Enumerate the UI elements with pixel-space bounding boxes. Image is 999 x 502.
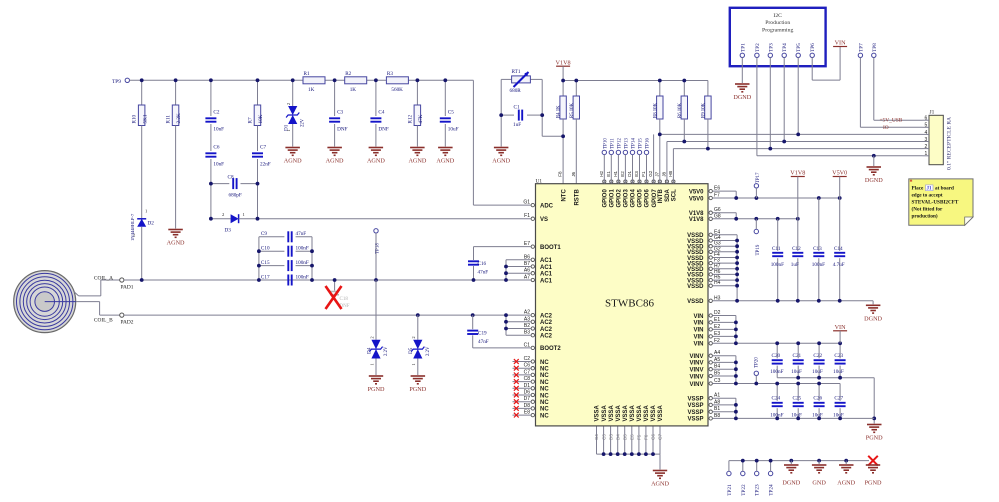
svg-text:TP9: TP9	[112, 79, 121, 85]
svg-text:AC1: AC1	[540, 258, 553, 264]
svg-text:V1V8: V1V8	[790, 170, 805, 177]
svg-text:10nF: 10nF	[213, 127, 224, 133]
svg-text:VINV: VINV	[689, 374, 703, 380]
svg-text:R5 10K: R5 10K	[570, 102, 575, 118]
svg-text:GPIO7: GPIO7	[652, 189, 658, 208]
svg-text:680pF: 680pF	[229, 193, 242, 199]
svg-text:VSSA: VSSA	[602, 404, 608, 421]
svg-text:VSSA: VSSA	[630, 404, 636, 421]
svg-text:F1: F1	[641, 171, 646, 177]
svg-text:SCL: SCL	[672, 189, 678, 201]
svg-text:2: 2	[369, 336, 374, 338]
svg-text:22nF: 22nF	[260, 162, 271, 168]
svg-text:AGND: AGND	[284, 158, 302, 165]
svg-text:GPIO0: GPIO0	[603, 189, 609, 208]
svg-text:R4 1K: R4 1K	[557, 105, 562, 118]
svg-text:VSSA: VSSA	[637, 404, 643, 421]
svg-text:C9: C9	[261, 231, 267, 237]
svg-text:PGND: PGND	[866, 435, 883, 442]
svg-text:AGND: AGND	[408, 158, 426, 165]
svg-text:TP20: TP20	[755, 357, 760, 368]
svg-text:edge to accept: edge to accept	[912, 193, 943, 199]
svg-text:NC: NC	[540, 367, 549, 373]
svg-text:GPIO3: GPIO3	[624, 189, 630, 208]
svg-text:TP4: TP4	[782, 43, 788, 52]
svg-text:STWBC86: STWBC86	[605, 298, 654, 310]
svg-text:DNF: DNF	[337, 127, 347, 133]
svg-text:TP23: TP23	[755, 484, 761, 496]
svg-text:VSSA: VSSA	[623, 404, 629, 421]
svg-text:C19: C19	[478, 330, 487, 336]
svg-text:TP22: TP22	[741, 484, 747, 496]
svg-text:TP19: TP19	[756, 244, 761, 255]
svg-text:1: 1	[925, 151, 928, 157]
svg-text:VSSA: VSSA	[658, 404, 664, 421]
svg-text:AGND: AGND	[367, 158, 385, 165]
svg-text:C14: C14	[834, 246, 843, 252]
svg-text:100nF: 100nF	[296, 260, 309, 266]
svg-text:R3: R3	[387, 71, 393, 77]
svg-text:+5V_USB: +5V_USB	[880, 118, 903, 124]
svg-text:J1: J1	[927, 187, 933, 192]
svg-text:C26: C26	[813, 396, 822, 402]
svg-text:47nF: 47nF	[478, 270, 489, 276]
svg-text:VIN: VIN	[835, 40, 847, 47]
svg-text:TP8: TP8	[872, 43, 878, 52]
svg-text:VSSA: VSSA	[595, 404, 601, 421]
svg-text:5K1: 5K1	[142, 114, 148, 123]
svg-text:BOOT1: BOOT1	[540, 245, 561, 251]
svg-text:(Not fitted for: (Not fitted for	[912, 206, 944, 213]
svg-text:10nF: 10nF	[213, 162, 224, 168]
svg-text:1K: 1K	[308, 87, 315, 93]
svg-text:100nF: 100nF	[296, 246, 309, 252]
svg-text:DGND: DGND	[865, 177, 883, 184]
svg-text:G1: G1	[523, 200, 530, 206]
svg-text:560K: 560K	[391, 87, 403, 93]
svg-text:GPIO5: GPIO5	[638, 189, 644, 208]
svg-text:VINV: VINV	[689, 368, 703, 374]
svg-text:R11: R11	[166, 115, 172, 124]
svg-text:I2C: I2C	[773, 13, 782, 19]
svg-text:Production: Production	[765, 20, 790, 26]
svg-text:E2: E2	[620, 171, 625, 177]
svg-text:3: 3	[925, 137, 928, 143]
svg-text:1uF: 1uF	[513, 122, 521, 128]
svg-text:R8 10K: R8 10K	[653, 102, 658, 118]
svg-text:R12: R12	[407, 114, 413, 123]
svg-text:NC: NC	[540, 413, 549, 419]
svg-text:TP1: TP1	[740, 43, 746, 52]
svg-text:100nF: 100nF	[771, 262, 784, 268]
svg-text:D5: D5	[408, 347, 414, 354]
svg-text:NC: NC	[540, 407, 549, 413]
svg-text:10uF: 10uF	[812, 369, 823, 375]
svg-text:C25: C25	[793, 396, 802, 402]
svg-text:D2: D2	[148, 221, 155, 227]
svg-text:1K: 1K	[350, 87, 357, 93]
svg-text:GND: GND	[812, 479, 826, 486]
svg-text:D1: D1	[627, 170, 632, 176]
svg-text:V5V0: V5V0	[689, 189, 704, 195]
svg-text:C7: C7	[260, 145, 266, 151]
svg-text:F1: F1	[524, 213, 530, 219]
svg-text:TP17: TP17	[756, 172, 761, 183]
svg-text:AC2: AC2	[540, 320, 553, 326]
svg-text:U1: U1	[536, 178, 543, 184]
svg-text:AC1: AC1	[540, 278, 553, 284]
svg-text:1uF: 1uF	[791, 262, 799, 268]
svg-text:at board: at board	[935, 186, 954, 192]
svg-text:C1: C1	[514, 105, 520, 111]
svg-text:C27: C27	[834, 396, 843, 402]
svg-text:VIN: VIN	[835, 324, 847, 331]
svg-text:C2: C2	[213, 110, 219, 116]
svg-text:GPIO6: GPIO6	[645, 189, 651, 208]
svg-text:J8: J8	[661, 172, 666, 177]
svg-text:ADC: ADC	[540, 203, 554, 209]
svg-text:AC1: AC1	[540, 272, 553, 278]
svg-text:680R: 680R	[510, 88, 522, 94]
svg-text:GPIO4: GPIO4	[631, 189, 637, 208]
svg-text:V1V8: V1V8	[689, 211, 704, 217]
svg-text:47K: 47K	[418, 114, 424, 123]
svg-text:47nF: 47nF	[478, 339, 489, 345]
svg-text:AC2: AC2	[540, 334, 553, 340]
svg-text:AGND: AGND	[837, 479, 855, 486]
svg-text:VSSA: VSSA	[609, 404, 615, 421]
svg-text:R10: R10	[132, 114, 138, 123]
svg-text:C16: C16	[478, 261, 487, 267]
svg-text:V1V8: V1V8	[689, 217, 704, 223]
svg-text:NTC: NTC	[561, 189, 567, 202]
svg-text:Programming: Programming	[762, 27, 793, 33]
svg-text:AC2: AC2	[540, 327, 553, 333]
svg-text:H1: H1	[613, 170, 618, 176]
svg-text:TP3: TP3	[768, 43, 774, 52]
svg-text:NC: NC	[540, 360, 549, 366]
svg-text:V5V0: V5V0	[689, 196, 704, 202]
svg-text:DNF: DNF	[378, 127, 388, 133]
svg-text:VINV: VINV	[689, 354, 703, 360]
svg-text:TP24: TP24	[769, 484, 775, 496]
svg-text:VIN: VIN	[693, 321, 703, 327]
svg-text:DGND: DGND	[864, 315, 882, 322]
svg-text:C15: C15	[261, 260, 270, 266]
svg-text:VINV: VINV	[689, 361, 703, 367]
svg-text:R9 10K: R9 10K	[702, 102, 707, 118]
svg-text:47nF: 47nF	[296, 231, 307, 237]
svg-text:VSSD: VSSD	[687, 299, 704, 305]
svg-text:TP11: TP11	[610, 138, 615, 149]
svg-text:VINV: VINV	[689, 382, 703, 388]
svg-text:AGND: AGND	[167, 240, 185, 247]
svg-text:COIL_B: COIL_B	[94, 318, 113, 324]
svg-text:2: 2	[286, 103, 291, 105]
svg-text:VSSP: VSSP	[687, 403, 703, 409]
svg-text:TP13: TP13	[624, 138, 629, 149]
svg-text:R6 10K: R6 10K	[678, 102, 683, 118]
svg-text:VSSA: VSSA	[651, 404, 657, 421]
svg-text:PGND: PGND	[368, 386, 385, 393]
svg-text:R1: R1	[304, 71, 310, 77]
svg-text:D3: D3	[225, 228, 232, 234]
svg-text:H2: H2	[599, 170, 604, 176]
svg-text:100nF: 100nF	[812, 262, 825, 268]
svg-text:C11: C11	[772, 246, 781, 252]
svg-text:V1V8: V1V8	[556, 59, 571, 66]
svg-text:10uF: 10uF	[833, 369, 844, 375]
svg-text:V5V0: V5V0	[832, 170, 847, 177]
svg-text:VIN: VIN	[693, 335, 703, 341]
svg-text:C20: C20	[772, 353, 781, 359]
svg-text:SDA: SDA	[665, 189, 671, 202]
svg-text:NC: NC	[540, 387, 549, 393]
svg-text:1: 1	[369, 363, 374, 365]
svg-text:C4: C4	[378, 110, 384, 116]
svg-text:J1: J1	[930, 110, 935, 116]
svg-text:C13: C13	[813, 246, 822, 252]
svg-text:VIN: VIN	[693, 314, 703, 320]
svg-text:1N4448HLP-7: 1N4448HLP-7	[130, 213, 135, 241]
svg-text:Place: Place	[912, 186, 925, 192]
svg-text:VSSP: VSSP	[687, 410, 703, 416]
svg-text:22V: 22V	[300, 118, 305, 127]
svg-text:VS: VS	[540, 217, 548, 223]
svg-text:2.2V: 2.2V	[384, 346, 389, 356]
svg-text:TP2: TP2	[755, 43, 761, 52]
svg-text:R7: R7	[248, 117, 254, 123]
svg-text:C10: C10	[261, 246, 270, 252]
svg-text:IO: IO	[883, 125, 889, 131]
svg-text:4.7uF: 4.7uF	[833, 262, 845, 268]
svg-text:J7: J7	[654, 172, 659, 177]
svg-text:VIN: VIN	[693, 328, 703, 334]
svg-text:5: 5	[925, 123, 928, 129]
svg-text:C18: C18	[340, 297, 349, 302]
svg-text:BOOT2: BOOT2	[540, 346, 561, 352]
svg-text:GPIO1: GPIO1	[610, 189, 616, 208]
svg-text:F8: F8	[558, 171, 563, 177]
svg-text:C12: C12	[792, 246, 801, 252]
svg-text:D4: D4	[366, 347, 372, 354]
svg-text:C8: C8	[228, 175, 234, 181]
svg-text:E1: E1	[606, 171, 611, 177]
svg-text:2.2V: 2.2V	[426, 346, 431, 356]
svg-text:NC: NC	[540, 393, 549, 399]
svg-text:VSSA: VSSA	[616, 404, 622, 421]
svg-text:NC: NC	[540, 400, 549, 406]
svg-text:100nF: 100nF	[770, 369, 783, 375]
svg-text:J6: J6	[571, 172, 576, 177]
svg-text:VSSD: VSSD	[687, 284, 704, 290]
svg-text:10uF: 10uF	[791, 369, 802, 375]
svg-text:TP6: TP6	[810, 43, 816, 52]
svg-text:C23: C23	[834, 353, 843, 359]
svg-text:VSSP: VSSP	[687, 397, 703, 403]
svg-text:G2: G2	[648, 170, 653, 177]
svg-text:C24: C24	[772, 396, 781, 402]
svg-text:0.1" RECEPTICLE RA: 0.1" RECEPTICLE RA	[946, 117, 952, 170]
svg-text:PAD1: PAD1	[121, 284, 134, 290]
svg-text:COIL_A: COIL_A	[94, 275, 113, 281]
svg-text:C22: C22	[813, 353, 822, 359]
svg-text:VSSP: VSSP	[687, 417, 703, 423]
svg-text:RSTB: RSTB	[575, 189, 581, 206]
svg-text:VIN: VIN	[693, 342, 703, 348]
svg-text:AGND: AGND	[436, 158, 454, 165]
svg-text:C21: C21	[793, 353, 802, 359]
svg-text:TP16: TP16	[646, 138, 651, 149]
svg-text:RT1: RT1	[512, 69, 521, 75]
svg-text:DGND: DGND	[782, 479, 800, 486]
svg-text:AGND: AGND	[651, 481, 669, 488]
svg-text:AC2: AC2	[540, 313, 553, 319]
svg-text:AC1: AC1	[540, 265, 553, 271]
svg-text:VSSA: VSSA	[644, 404, 650, 421]
svg-text:100nF: 100nF	[296, 274, 309, 280]
svg-text:PAD2: PAD2	[121, 319, 134, 325]
svg-text:TP5: TP5	[796, 43, 802, 52]
svg-text:AGND: AGND	[326, 158, 344, 165]
svg-text:PGND: PGND	[409, 386, 426, 393]
svg-text:TP15: TP15	[639, 138, 644, 149]
svg-text:1: 1	[411, 363, 416, 365]
svg-text:TP14: TP14	[632, 138, 637, 149]
svg-text:E3: E3	[634, 171, 639, 177]
svg-text:INTB: INTB	[658, 189, 664, 204]
svg-text:GPIO2: GPIO2	[617, 189, 623, 208]
svg-text:2: 2	[411, 336, 416, 338]
svg-text:TP10: TP10	[603, 138, 608, 149]
svg-text:C6: C6	[213, 145, 219, 151]
svg-text:C3: C3	[337, 110, 343, 116]
svg-text:2.2K: 2.2K	[176, 113, 182, 123]
svg-text:PGND: PGND	[865, 479, 882, 486]
svg-text:1: 1	[286, 129, 291, 131]
svg-text:4: 4	[925, 130, 928, 136]
svg-text:DGND: DGND	[733, 94, 751, 101]
svg-text:10uF: 10uF	[448, 127, 459, 133]
svg-text:6: 6	[925, 116, 928, 122]
svg-text:AGND: AGND	[492, 158, 510, 165]
svg-text:NC: NC	[540, 380, 549, 386]
svg-text:10K: 10K	[258, 114, 264, 123]
svg-text:C17: C17	[261, 274, 270, 280]
svg-text:TP12: TP12	[617, 138, 622, 149]
svg-text:STEVAL-USBI2CFT: STEVAL-USBI2CFT	[912, 200, 959, 206]
svg-text:TP21: TP21	[727, 484, 733, 496]
svg-text:NC: NC	[540, 373, 549, 379]
svg-text:C5: C5	[448, 110, 454, 116]
svg-text:TP7: TP7	[858, 43, 864, 52]
svg-text:H8: H8	[668, 170, 673, 176]
svg-text:R2: R2	[345, 71, 351, 77]
svg-text:2: 2	[925, 144, 928, 150]
svg-text:production): production)	[912, 213, 938, 220]
